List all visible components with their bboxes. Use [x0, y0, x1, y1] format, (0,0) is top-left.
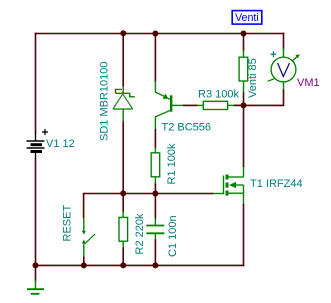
resistor R1 100k	[151, 148, 160, 185]
svg-text:SD1 MBR10100: SD1 MBR10100	[99, 62, 111, 142]
node C1-bottom	[152, 262, 158, 268]
net label Venti	[232, 11, 262, 25]
svg-text:R3 100k: R3 100k	[198, 89, 239, 101]
svg-text:C1 100n: C1 100n	[167, 215, 179, 257]
svg-text:R1 100k: R1 100k	[166, 143, 178, 184]
resistor Venti 85	[239, 50, 248, 94]
wire left rail upper	[35, 33, 37, 134]
wire diode to mid rail	[122, 121, 124, 194]
node switch-bottom	[81, 262, 87, 268]
wire base to R3	[183, 104, 198, 106]
wire collector to R1	[154, 129, 156, 149]
wire emitter column	[154, 34, 156, 83]
node top rail / venti	[241, 31, 247, 37]
wire drain column	[243, 105, 245, 167]
svg-text:VM1: VM1	[297, 77, 320, 89]
switch S1 RESET	[82, 218, 95, 258]
wire R2 bottom segment	[122, 248, 124, 266]
transistor T2 BC556	[155, 81, 183, 130]
svg-text:Venti: Venti	[235, 12, 259, 24]
node bottom-left junction	[33, 262, 39, 268]
battery V1	[27, 129, 49, 158]
wire R2 top segment	[122, 194, 124, 213]
wire R3 to node	[234, 104, 244, 106]
wire middle horizontal (reset/gate net)	[84, 193, 214, 196]
wire C1 bottom segment	[154, 240, 156, 266]
wire bottom rail	[35, 264, 245, 266]
wire source column	[243, 204, 245, 266]
voltmeter VM1	[268, 48, 300, 91]
svg-text:T1 IRFZ44: T1 IRFZ44	[250, 178, 303, 190]
node mid rail / R2	[120, 190, 126, 196]
node base/drain/meter junction	[241, 102, 247, 108]
wire C1 top segment	[154, 194, 156, 220]
node top rail / emitter	[152, 31, 158, 37]
node mid rail / R1 / C1	[152, 191, 158, 197]
node top rail / diode	[120, 30, 126, 36]
wire gate pin	[213, 193, 224, 195]
svg-text:T2 BC556: T2 BC556	[162, 122, 212, 134]
mosfet T1 IRFZ44	[224, 166, 244, 205]
ground	[27, 280, 44, 294]
wire switch bottom segment	[83, 257, 85, 266]
svg-text:R2 220k: R2 220k	[134, 213, 146, 254]
wire diode column upper	[122, 33, 124, 87]
diode SD1 MBR10100	[113, 86, 135, 122]
wire venti resistor bottom	[243, 93, 245, 106]
wire voltmeter top	[283, 33, 285, 49]
capacitor C1 100n	[146, 218, 164, 241]
wire left rail lower	[35, 158, 37, 265]
resistor R2 220k	[119, 212, 128, 249]
wire R1 to mid rail	[154, 184, 156, 194]
wire venti resistor top	[243, 34, 245, 52]
node R2-bottom	[120, 262, 126, 268]
wire ground stem	[35, 265, 37, 281]
svg-text:RESET: RESET	[62, 205, 74, 242]
wire voltmeter bottom	[244, 90, 284, 106]
wire switch top segment	[83, 194, 85, 219]
svg-text:V1 12: V1 12	[46, 138, 75, 150]
resistor R3 100k	[197, 101, 235, 109]
svg-text:Venti 85: Venti 85	[247, 58, 259, 98]
wire top rail	[35, 33, 284, 35]
